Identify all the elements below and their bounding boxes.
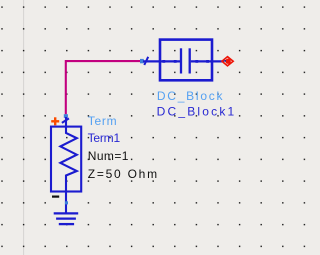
svg-text:Term1: Term1 xyxy=(88,131,121,145)
unconnected pin 2 diamond marker xyxy=(222,57,233,66)
svg-text:DC_Block: DC_Block xyxy=(157,89,224,103)
wire W1 (Term1 to DC_Block1) xyxy=(66,61,140,114)
node/pin square at Term1 pin 2 (to ground) xyxy=(65,201,68,204)
resistor zigzag inside Term1 xyxy=(60,117,76,213)
svg-text:DC_Block1: DC_Block1 xyxy=(157,104,237,118)
minus polarity mark xyxy=(52,196,59,198)
lead joint ticks xyxy=(162,60,165,63)
term Term1 body xyxy=(51,117,81,213)
lead right plate to pin2 xyxy=(191,60,224,62)
node/pin square at Term1 pin 1 xyxy=(64,114,68,118)
ground xyxy=(54,213,78,224)
capacitor DC_Block1 body xyxy=(143,40,224,81)
lead pin1 to left plate xyxy=(143,60,180,62)
pin 1 slash marker (DC_Block1) xyxy=(144,57,148,65)
right capacitor plate xyxy=(189,48,191,73)
plus polarity mark xyxy=(51,117,59,125)
svg-text:Term: Term xyxy=(88,114,117,128)
svg-text:Num=1: Num=1 xyxy=(88,149,129,163)
sheet border line xyxy=(23,0,25,255)
svg-text:Z=50 Ohm: Z=50 Ohm xyxy=(88,167,159,181)
node/pin square at DC_Block1 pin 1 xyxy=(140,59,144,63)
left capacitor plate xyxy=(180,48,182,73)
pin 1 slash marker (Term1) xyxy=(62,118,69,123)
